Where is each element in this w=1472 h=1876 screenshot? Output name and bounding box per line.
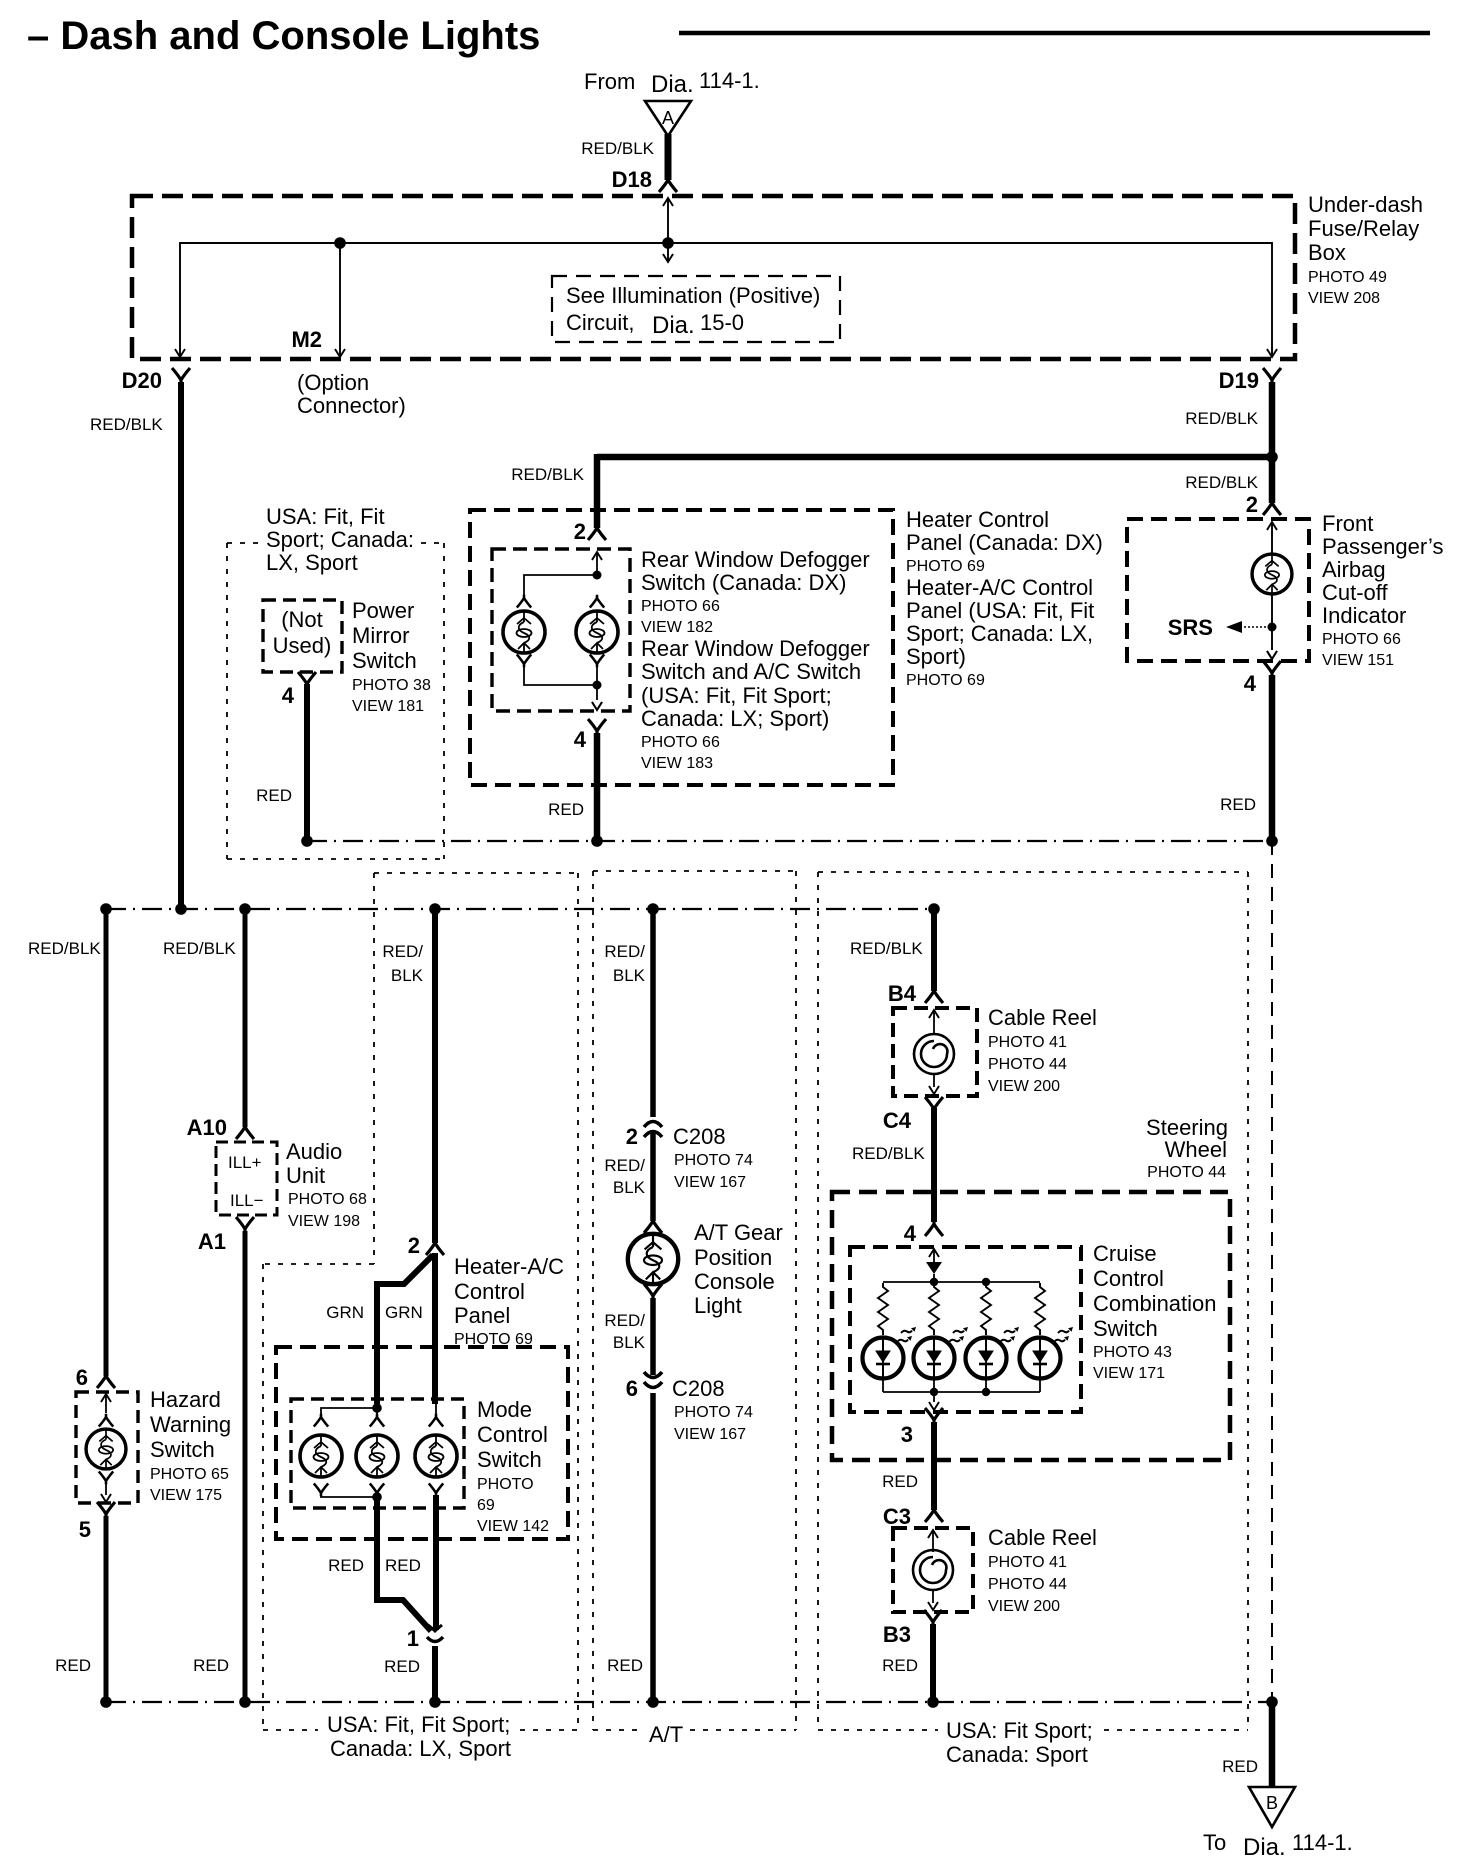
wire RED down to bottom bus — [104, 1516, 109, 1699]
svg-text:RED/BLK: RED/BLK — [1185, 409, 1258, 428]
svg-text:Panel: Panel — [454, 1303, 510, 1328]
svg-text:Combination: Combination — [1093, 1291, 1217, 1316]
svg-text:114-1.: 114-1. — [699, 68, 760, 93]
arrow up at airbag pin 2 — [1271, 522, 1273, 554]
svg-text:B: B — [1266, 1793, 1278, 1813]
wire: internal bus of fuse box — [180, 243, 1272, 355]
svg-text:VIEW 171: VIEW 171 — [1093, 1365, 1165, 1382]
arrow down to illumination note — [663, 254, 673, 262]
wire: M2 branch — [339, 243, 341, 355]
cable reel box (lower) — [893, 1528, 973, 1612]
svg-text:2: 2 — [408, 1233, 420, 1258]
svg-text:BLK: BLK — [613, 966, 646, 985]
svg-text:Heater Control: Heater Control — [906, 507, 1049, 532]
svg-text:VIEW 167: VIEW 167 — [674, 1174, 746, 1191]
svg-text:A1: A1 — [198, 1229, 226, 1254]
svg-text:RED/BLK: RED/BLK — [852, 1144, 925, 1163]
wire: D18 branch — [667, 199, 669, 260]
svg-text:Power: Power — [352, 598, 414, 623]
indicator bulb — [1252, 554, 1292, 594]
svg-text:Sport; Canada:: Sport; Canada: — [266, 527, 414, 552]
cable reel box (upper) — [893, 1008, 977, 1096]
svg-text:VIEW 167: VIEW 167 — [674, 1426, 746, 1443]
wire RED down to connector B — [1269, 1702, 1276, 1787]
svg-text:VIEW 208: VIEW 208 — [1308, 290, 1380, 307]
svg-text:A/T Gear: A/T Gear — [694, 1220, 783, 1245]
svg-text:ILL−: ILL− — [230, 1191, 264, 1210]
svg-text:RED: RED — [607, 1656, 643, 1675]
svg-text:RED/BLK: RED/BLK — [28, 939, 101, 958]
arrow down at switch bottom — [592, 702, 602, 710]
variant dotted box (steering: USA Fit Sport; Canada Sport) — [818, 872, 1248, 1730]
svg-text:VIEW 175: VIEW 175 — [150, 1487, 222, 1504]
wire GRN left branch with jog — [377, 1255, 433, 1404]
wire mid stub — [376, 1408, 378, 1415]
svg-text:VIEW 198: VIEW 198 — [288, 1213, 360, 1230]
wire GRN right branch — [432, 1253, 438, 1404]
svg-text:RED: RED — [385, 1556, 421, 1575]
console light upper terminal — [644, 1217, 662, 1233]
svg-text:RED: RED — [1220, 795, 1256, 814]
resistor 3 — [981, 1283, 991, 1335]
wire RED/BLK horizontal feed to defogger — [597, 454, 1272, 461]
svg-text:Rear Window Defogger: Rear Window Defogger — [641, 547, 870, 572]
svg-text:1: 1 — [407, 1626, 419, 1651]
wire RED down to return bus — [304, 684, 310, 838]
svg-text:RED/BLK: RED/BLK — [511, 465, 584, 484]
svg-text:Panel (USA: Fit, Fit: Panel (USA: Fit, Fit — [906, 598, 1094, 623]
svg-text:Dia.: Dia. — [651, 71, 694, 98]
mode bulb terminals upper — [314, 1414, 328, 1427]
svg-text:BLK: BLK — [613, 1178, 646, 1197]
wire RED down to return bus — [594, 733, 601, 838]
svg-text:Cut-off: Cut-off — [1322, 580, 1389, 605]
svg-text:Position: Position — [694, 1245, 772, 1270]
svg-text:Control: Control — [477, 1422, 548, 1447]
svg-text:Used): Used) — [273, 633, 332, 658]
wire RED down to bottom bus — [243, 1231, 248, 1699]
svg-text:4: 4 — [1244, 671, 1257, 696]
arrow up inside hazard switch — [105, 1395, 107, 1413]
wire RED/BLK to console light — [650, 1133, 656, 1221]
left bulb lower terminal — [517, 654, 531, 667]
svg-text:D19: D19 — [1219, 368, 1259, 393]
svg-text:LX, Sport: LX, Sport — [266, 550, 358, 575]
wires LED to rails — [883, 1337, 1040, 1392]
svg-text:Dia.: Dia. — [652, 312, 695, 339]
svg-text:PHOTO 44: PHOTO 44 — [988, 1576, 1067, 1593]
svg-text:B4: B4 — [888, 981, 917, 1006]
svg-text:PHOTO 66: PHOTO 66 — [641, 598, 720, 615]
junction dot in switch — [593, 571, 602, 580]
wire RED/BLK down to A10 — [243, 909, 248, 1127]
wire D20 RED/BLK down to bus — [178, 382, 184, 906]
svg-text:C208: C208 — [673, 1124, 726, 1149]
audio unit box — [216, 1142, 277, 1215]
top rail — [883, 1281, 1040, 1283]
svg-text:VIEW 183: VIEW 183 — [641, 755, 713, 772]
wire RED down to bottom bus — [930, 1624, 936, 1699]
svg-text:RED: RED — [1222, 1757, 1258, 1776]
svg-text:RED: RED — [55, 1656, 91, 1675]
svg-text:Heater-A/C Control: Heater-A/C Control — [906, 575, 1093, 600]
svg-text:Connector): Connector) — [297, 393, 406, 418]
svg-text:BLK: BLK — [613, 1333, 646, 1352]
svg-text:Cruise: Cruise — [1093, 1241, 1157, 1266]
svg-text:BLK: BLK — [391, 966, 424, 985]
wire RED/BLK down to hazard pin 6 — [104, 909, 109, 1376]
svg-text:PHOTO 74: PHOTO 74 — [674, 1152, 753, 1169]
svg-text:VIEW 182: VIEW 182 — [641, 619, 713, 636]
mode control switch box — [291, 1399, 464, 1508]
svg-text:D20: D20 — [122, 368, 162, 393]
see illumination circuit note box — [552, 276, 840, 342]
svg-text:PHOTO 69: PHOTO 69 — [906, 672, 985, 689]
svg-text:Unit: Unit — [286, 1163, 325, 1188]
svg-text:Canada: Sport: Canada: Sport — [946, 1742, 1088, 1767]
wire RED right to pin 1 — [433, 1495, 439, 1630]
svg-text:(Option: (Option — [297, 370, 369, 395]
svg-text:Sport; Canada: LX,: Sport; Canada: LX, — [906, 621, 1093, 646]
svg-text:Switch: Switch — [150, 1437, 215, 1462]
svg-text:C4: C4 — [883, 1108, 912, 1133]
svg-text:RED/BLK: RED/BLK — [581, 139, 654, 158]
svg-text:D18: D18 — [612, 167, 652, 192]
resistor 2 — [929, 1283, 939, 1335]
svg-text:Dia.: Dia. — [1243, 1834, 1286, 1861]
svg-text:PHOTO 69: PHOTO 69 — [906, 558, 985, 575]
mode bulb terminals lower — [314, 1483, 328, 1496]
cable reel coil — [914, 1034, 954, 1074]
svg-text:GRN: GRN — [385, 1303, 423, 1322]
LED 2 — [914, 1338, 955, 1379]
svg-text:Console: Console — [694, 1269, 775, 1294]
wire RED down to bottom bus — [432, 1646, 438, 1699]
svg-text:RED/BLK: RED/BLK — [90, 415, 163, 434]
wire: RED return bus (upper) — [307, 840, 1272, 842]
wire to left mode bulb — [321, 1408, 377, 1415]
title rule — [679, 31, 1430, 36]
wire RED/BLK down to C208 — [650, 909, 656, 1117]
svg-text:4: 4 — [904, 1221, 917, 1246]
svg-text:6: 6 — [76, 1365, 88, 1390]
rear window defogger switch outer box — [470, 510, 893, 785]
defogger right bulb — [576, 611, 618, 653]
svg-text:Fuse/Relay: Fuse/Relay — [1308, 216, 1419, 241]
svg-text:PHOTO 43: PHOTO 43 — [1093, 1344, 1172, 1361]
arrow up inside switch — [596, 553, 598, 575]
svg-text:Canada: LX; Sport): Canada: LX; Sport) — [641, 706, 829, 731]
wire A to D18 (RED/BLK) — [665, 134, 672, 180]
svg-text:Cable Reel: Cable Reel — [988, 1005, 1097, 1030]
svg-text:2: 2 — [1246, 492, 1258, 517]
junction dot at M2 branch — [334, 237, 346, 249]
wire to left bulb — [524, 575, 597, 596]
power mirror switch (Not Used) box — [263, 600, 342, 672]
svg-text:Circuit,: Circuit, — [566, 310, 634, 335]
hazard bulb — [86, 1429, 126, 1469]
svg-text:SRS: SRS — [1168, 615, 1213, 640]
svg-text:RED/: RED/ — [382, 942, 423, 961]
wire left bulb to junction — [524, 666, 597, 685]
svg-text:PHOTO: PHOTO — [477, 1476, 534, 1493]
junction dot left GRN — [372, 1403, 382, 1413]
wire D19 RED/BLK down — [1269, 382, 1276, 457]
svg-text:PHOTO 41: PHOTO 41 — [988, 1034, 1067, 1051]
svg-text:Front: Front — [1322, 511, 1373, 536]
svg-text:6: 6 — [626, 1376, 638, 1401]
wire right bulb to junction — [596, 666, 598, 700]
svg-text:(Not: (Not — [281, 607, 323, 632]
svg-text:VIEW 181: VIEW 181 — [352, 698, 424, 715]
steering wheel box — [832, 1192, 1230, 1460]
svg-text:VIEW 151: VIEW 151 — [1322, 652, 1394, 669]
svg-text:Control: Control — [454, 1279, 525, 1304]
svg-text:RED: RED — [193, 1656, 229, 1675]
left bulb terminal — [517, 595, 531, 608]
mode control switch bulbs — [300, 1435, 342, 1477]
hazard bulb lower terminal — [99, 1471, 113, 1484]
svg-text:Hazard: Hazard — [150, 1387, 221, 1412]
connector C208 pin 2 — [644, 1122, 662, 1138]
svg-text:Passenger’s: Passenger’s — [1322, 534, 1443, 559]
svg-text:RED/: RED/ — [604, 1311, 645, 1330]
arrow to D19 — [1267, 349, 1277, 357]
A/T gear position console light bulb — [628, 1234, 678, 1284]
svg-text:Control: Control — [1093, 1266, 1164, 1291]
wire: dashed RED return riser — [1271, 841, 1273, 1702]
svg-text:Mirror: Mirror — [352, 623, 409, 648]
svg-text:Under-dash: Under-dash — [1308, 192, 1423, 217]
svg-text:Switch: Switch — [1093, 1316, 1158, 1341]
svg-text:USA: Fit, Fit Sport;: USA: Fit, Fit Sport; — [327, 1712, 510, 1737]
svg-text:Heater-A/C: Heater-A/C — [454, 1254, 564, 1279]
svg-text:Sport): Sport) — [906, 644, 966, 669]
arrow to M2 — [335, 349, 345, 357]
svg-text:15-0: 15-0 — [700, 310, 744, 335]
svg-text:RED: RED — [548, 800, 584, 819]
junction dot at D18 branch — [662, 237, 674, 249]
LED 4 — [1020, 1338, 1061, 1379]
wire RED down to C3 — [931, 1422, 937, 1510]
svg-text:RED/BLK: RED/BLK — [163, 939, 236, 958]
svg-text:Audio: Audio — [286, 1139, 342, 1164]
svg-text:Panel (Canada: DX): Panel (Canada: DX) — [906, 530, 1103, 555]
svg-text:114-1.: 114-1. — [1292, 1830, 1353, 1855]
lower cable reel coil — [913, 1550, 953, 1590]
junction dot D19 / horizontal feed — [1266, 451, 1278, 463]
SRS arrow — [1244, 626, 1272, 628]
svg-text:2: 2 — [626, 1124, 638, 1149]
svg-text:2: 2 — [574, 519, 586, 544]
svg-text:RED: RED — [882, 1656, 918, 1675]
svg-text:PHOTO 41: PHOTO 41 — [988, 1554, 1067, 1571]
resistor 1 — [878, 1283, 888, 1335]
svg-text:PHOTO 66: PHOTO 66 — [1322, 631, 1401, 648]
svg-text:M2: M2 — [291, 327, 322, 352]
svg-text:RED: RED — [384, 1657, 420, 1676]
arrow down at cruise bottom — [933, 1392, 935, 1402]
hazard bulb upper terminal — [99, 1414, 113, 1427]
svg-text:Mode: Mode — [477, 1397, 532, 1422]
svg-text:VIEW 200: VIEW 200 — [988, 1078, 1060, 1095]
svg-text:Box: Box — [1308, 240, 1346, 265]
svg-text:Switch (Canada: DX): Switch (Canada: DX) — [641, 570, 846, 595]
svg-text:Airbag: Airbag — [1322, 557, 1386, 582]
wire RED/BLK down to B4 — [931, 909, 937, 991]
svg-text:A: A — [662, 108, 674, 128]
svg-text:Indicator: Indicator — [1322, 603, 1406, 628]
wire: RED/BLK distribution bus — [106, 908, 934, 910]
svg-text:VIEW 142: VIEW 142 — [477, 1518, 549, 1535]
svg-text:USA: Fit, Fit: USA: Fit, Fit — [266, 504, 385, 529]
svg-text:PHOTO 68: PHOTO 68 — [288, 1191, 367, 1208]
svg-text:To: To — [1203, 1830, 1226, 1855]
arrow to D20 — [175, 349, 185, 357]
LED 1 — [863, 1338, 904, 1379]
svg-text:Rear Window Defogger: Rear Window Defogger — [641, 636, 870, 661]
arrow up inside lower cable reel — [932, 1531, 934, 1552]
variant dotted box (power mirror) — [227, 543, 444, 859]
svg-text:(USA: Fit, Fit Sport;: (USA: Fit, Fit Sport; — [641, 683, 832, 708]
svg-text:PHOTO 44: PHOTO 44 — [1147, 1164, 1226, 1181]
svg-text:RED/BLK: RED/BLK — [850, 939, 923, 958]
svg-text:RED: RED — [256, 786, 292, 805]
wire RED down to return bus — [1269, 675, 1276, 838]
variant dotted box (heater A/C panel: USA Fit, Fit Sport; Canada LX, Sport) — [263, 873, 578, 1730]
heater A/C control panel box — [276, 1347, 568, 1539]
junction dot SRS tap — [1268, 623, 1277, 632]
svg-text:Warning: Warning — [150, 1412, 231, 1437]
wire: RED return bus (bottom) — [106, 1701, 1272, 1703]
right bulb lower terminal — [590, 654, 604, 667]
svg-text:A/T: A/T — [649, 1722, 683, 1747]
svg-text:4: 4 — [574, 727, 587, 752]
svg-text:Cable Reel: Cable Reel — [988, 1525, 1097, 1550]
svg-text:Canada: LX, Sport: Canada: LX, Sport — [330, 1736, 511, 1761]
arrow down inside lower cable reel — [932, 1590, 934, 1603]
svg-text:69: 69 — [477, 1497, 495, 1514]
LED 3 — [966, 1338, 1007, 1379]
under-dash fuse/relay box — [132, 196, 1295, 359]
svg-text:USA: Fit Sport;: USA: Fit Sport; — [946, 1718, 1093, 1743]
svg-text:5: 5 — [79, 1517, 91, 1542]
svg-text:A10: A10 — [187, 1115, 227, 1140]
svg-text:PHOTO 49: PHOTO 49 — [1308, 269, 1387, 286]
wire RED/BLK down to C208 pin 6 — [650, 1298, 656, 1375]
svg-text:Switch and A/C Switch: Switch and A/C Switch — [641, 659, 861, 684]
junction dot lower — [372, 1492, 382, 1502]
svg-text:Switch: Switch — [477, 1447, 542, 1472]
svg-text:3: 3 — [901, 1422, 913, 1447]
junction dots on distribution bus — [100, 903, 112, 915]
svg-text:RED: RED — [328, 1556, 364, 1575]
wire RED/BLK down to steering wheel — [931, 1108, 937, 1222]
console light lower terminal — [644, 1284, 662, 1300]
svg-text:RED: RED — [882, 1472, 918, 1491]
svg-text:See Illumination (Positive): See Illumination (Positive) — [566, 283, 820, 308]
arrow up inside cruise switch — [933, 1250, 935, 1262]
wire RED/BLK down to airbag indicator pin 2 — [1269, 457, 1276, 503]
svg-text:PHOTO 66: PHOTO 66 — [641, 734, 720, 751]
arrow up inside cable reel — [933, 1011, 935, 1035]
svg-text:– Dash and Console Lights: – Dash and Console Lights — [27, 14, 540, 58]
cruise control combination switch box — [850, 1247, 1081, 1412]
svg-text:From: From — [584, 69, 635, 94]
connector B (to Dia. 114-1) — [1249, 1787, 1295, 1827]
svg-text:4: 4 — [282, 683, 295, 708]
svg-text:Light: Light — [694, 1293, 742, 1318]
wire bulb to pin 4 — [1271, 594, 1273, 650]
junction dot defogger return — [591, 835, 603, 847]
svg-text:C208: C208 — [672, 1376, 725, 1401]
rear window defogger switch inner box — [492, 549, 630, 711]
bottom rail — [883, 1391, 1040, 1393]
svg-text:VIEW 200: VIEW 200 — [988, 1598, 1060, 1615]
wire RED down to bottom bus — [650, 1393, 656, 1699]
resistor 4 — [1035, 1283, 1045, 1335]
wire left bulb to junction — [321, 1495, 377, 1497]
svg-text:PHOTO 65: PHOTO 65 — [150, 1466, 229, 1483]
svg-text:PHOTO 38: PHOTO 38 — [352, 677, 431, 694]
junction dot lower — [593, 681, 602, 690]
svg-text:RED/BLK: RED/BLK — [1185, 473, 1258, 492]
connector A (from Dia. 114-1) — [645, 101, 691, 136]
svg-text:ILL+: ILL+ — [228, 1153, 262, 1172]
front passenger's airbag cut-off indicator box — [1127, 519, 1309, 661]
wire RED left with jog to pin 1 — [377, 1497, 431, 1631]
arrow down inside cable reel — [933, 1074, 935, 1087]
svg-text:Switch: Switch — [352, 648, 417, 673]
series diode — [926, 1262, 942, 1274]
arrow up to D18 — [663, 198, 673, 206]
arrow down at hazard switch bottom — [105, 1483, 107, 1495]
svg-text:PHOTO 74: PHOTO 74 — [674, 1404, 753, 1421]
arrow down at airbag pin 4 — [1267, 651, 1277, 659]
wire RED/BLK down to heater pin 2 — [432, 909, 438, 1243]
svg-text:Wheel: Wheel — [1165, 1137, 1227, 1162]
svg-text:RED/: RED/ — [604, 942, 645, 961]
svg-text:GRN: GRN — [326, 1303, 364, 1322]
svg-text:B3: B3 — [883, 1622, 911, 1647]
connector C208 pin 6 — [644, 1372, 662, 1388]
variant dotted box (A/T) — [593, 871, 796, 1730]
junction dot airbag return — [1266, 835, 1278, 847]
junction dot power mirror return — [301, 835, 313, 847]
defogger left bulb — [503, 611, 545, 653]
svg-text:RED/: RED/ — [604, 1156, 645, 1175]
right bulb terminal — [590, 595, 604, 608]
svg-text:PHOTO 44: PHOTO 44 — [988, 1056, 1067, 1073]
hazard warning switch box — [76, 1392, 138, 1503]
svg-text:C3: C3 — [883, 1504, 911, 1529]
